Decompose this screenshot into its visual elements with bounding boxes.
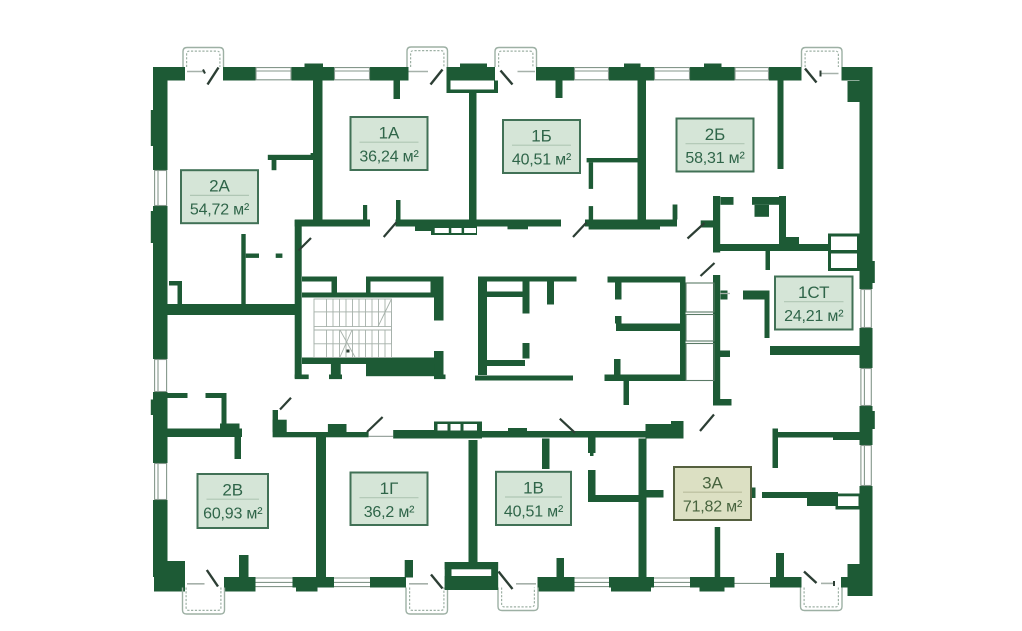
svg-text:24,21 м²: 24,21 м² [784,308,844,325]
wall: 2V pier at bottom wall [239,555,249,578]
wall: elevator dividers [332,282,436,293]
wall: 2B/1ST separator (H2) [713,244,830,251]
svg-text:1СТ: 1СТ [798,283,830,302]
line: 1ST hallway thin partition [720,293,730,295]
door: balcony top 4 [805,69,839,83]
wall: 2A hallway / core vertical [295,220,302,378]
svg-text:1А: 1А [379,124,400,143]
wall: elevator shaft right vertical [434,277,444,380]
wall: corridor top (H1) segments [295,220,677,227]
wall: bottom-left corner block [154,561,185,592]
label: apt 3A [674,467,751,520]
balcony: bottom 2 (apt 1G) [406,588,448,615]
wall: elevator block top bar left [302,277,337,282]
balcony: top 4 (apt 2B) [802,48,843,68]
wall: top-right corner block [848,81,873,102]
wall: pilaster on 2A/1A separator [311,153,315,160]
wall: tooth right of 1V/3A wall [647,490,664,498]
wall: corridor/1ST vertical (lower) [713,275,720,406]
window: bottom wall, apt 3A left [654,577,690,588]
wall: 2A door frame stubs [246,254,283,258]
window: bottom wall, apt 1V [575,577,610,588]
window: top wall, apt 2A [256,67,292,81]
shaft: duct row below H1 [431,227,477,236]
door: balcony bottom 1 [187,570,218,587]
wall: 1G/1V separator [469,440,478,562]
wall: 1V pier at bottom wall [557,558,565,578]
wall: 1V bathroom [588,436,639,502]
svg-text:60,93 м²: 60,93 м² [203,506,263,523]
wall: 2A bottom (H3) [168,304,297,315]
wall: 3A bedroom horizontal to right wall [778,432,860,440]
wall: 1A/1B separator [469,93,477,227]
wall: 3A lower partition [751,488,838,507]
wall: 3A bedroom vertical [773,429,779,469]
balcony: bottom 3 (apt 1V) [498,588,538,611]
svg-text:2Б: 2Б [705,125,726,144]
wall: 1G stub at bottom wall [405,560,413,578]
svg-text:1В: 1В [523,478,544,497]
svg-text:2В: 2В [222,481,243,500]
svg-text:2А: 2А [209,177,230,196]
wall: 1V/3A separator [639,439,647,578]
svg-text:58,31 м²: 58,31 м² [685,150,745,167]
balcony: bottom 4 (apt 3A) [801,588,843,611]
door: balcony bottom 4 [804,572,834,587]
wall: 3A stub at bottom wall [776,553,784,578]
wall: H1 lower teeth [415,227,660,232]
wall: 2B bathroom top [721,197,782,217]
door: 2B bathroom (swing) [688,223,705,239]
door: balcony top 3 [501,71,536,85]
label: apt 1G [351,473,428,526]
svg-text:36,2 м²: 36,2 м² [364,504,415,521]
wall: 1B/2B separator [638,81,647,221]
door: balcony bottom 3 [499,572,537,590]
label: apt 2A [181,170,258,223]
svg-text:40,51 м²: 40,51 м² [504,503,564,520]
wall: stair core bottom [302,358,443,365]
wall: bottom exterior [224,577,256,588]
wall: stub in 1B [556,81,563,99]
window: top wall, apt 2B left [654,67,690,81]
wall: 2A partition stub down [272,160,277,170]
window: bottom wall, apt 1G [334,577,370,588]
wall: 1B partition horizontal [587,158,639,162]
shaft: box between 1G and 1V at bottom wall [445,562,498,590]
wall: 1B partition vertical with door gap [589,162,593,219]
wall: bottom pier feet [224,588,256,592]
window: right wall, apt 3A lower [860,445,873,486]
wall: corridor bottom / apartments top (H7) [168,410,684,439]
label: apt 1B [503,120,580,173]
door: corridor to 1V (swing) [560,419,575,433]
wall: H1 door-frame stubs [363,200,677,220]
label: apt 2V [198,474,269,528]
window: right wall, apt 3A upper [860,368,873,406]
stairs: direction dot [347,350,350,353]
wall: right exterior [860,67,873,289]
wall: core lobby top bar right [478,277,577,282]
svg-text:3А: 3А [702,474,723,493]
wall: 1ST bottom [720,346,861,357]
window: top wall, apt 2B right [735,67,770,81]
wall: 1V hallway stub [542,439,550,470]
wall: 1ST partitions [721,291,770,339]
wall: stub below H2 [766,251,771,270]
door: balcony top 1 [187,68,219,85]
door: 2A room to hallway (swing) [299,238,312,251]
shaft: top duct box between 1A and 1B [447,81,499,94]
balcony: top 1 (apt 2A) [183,48,224,68]
wall: left pilaster bumps [151,110,153,146]
wall: thin stub below H7 [590,437,594,456]
wall: 2V bathroom [168,393,242,459]
svg-text:54,72 м²: 54,72 м² [190,202,250,219]
door: corridor to 3A (swing) [700,415,714,432]
wall: top exterior [154,67,185,81]
label: apt 1V [496,472,571,525]
window: bottom wall, apt 2V [256,577,293,588]
wall: corridor/1ST vertical (upper) [701,196,721,253]
wall: stub right of corridor wall end [715,399,732,406]
shaft: box at right wall near 3A [836,494,862,510]
wall: 2A/1A separator [313,81,323,221]
svg-text:1Б: 1Б [531,127,552,146]
wall: right pilaster bumps [873,261,875,283]
shaft: three thin boxes right of service block [686,283,714,381]
door: 1ST entrance (swing) [701,263,715,276]
door: corridor to 2V (swing) [280,398,291,410]
window: left wall, apt 2V lower [153,463,168,500]
stairs: staircase with treads [314,299,392,358]
label: apt 2B [677,119,754,172]
svg-text:71,82 м²: 71,82 м² [683,499,743,516]
wall: left exterior [153,67,168,170]
wall: 2B bathroom foot [781,237,799,245]
wall: core lobby verticals and bars [475,277,573,381]
label: apt 1A [351,117,428,170]
wall: 2A niche [169,281,182,304]
window: left wall, apt 2A [153,170,168,206]
wall: elevator block bottom bar [302,293,434,298]
svg-text:1Г: 1Г [380,479,399,498]
wall: elevator block top bar right [366,277,442,282]
shaft: duct row above H7 [434,422,482,435]
wall: 3A thin partition to bottom wall [715,527,721,578]
balcony: bottom 1 (apt 2V) [183,588,225,615]
window: bottom wall, apt 3A right [735,577,771,588]
wall: 2B bathroom right vertical [779,196,786,245]
wall: 2B closet thin wall [778,81,784,170]
wall: 2V/1G separator [316,433,326,578]
svg-text:40,51 м²: 40,51 м² [512,152,572,169]
wall: service shaft block [605,277,686,406]
window: top wall, apt 1A left [334,67,370,81]
wall: 2A partition horizontal [268,155,315,160]
wall: top pilaster bumps [305,64,324,68]
window: top wall, apt 1B left [574,67,609,81]
wall: bottom-right corner block [848,564,873,596]
door: corridor upper-right (swing) [573,223,587,238]
svg-text:36,24 м²: 36,24 м² [359,149,419,166]
wall: 2A thin vertical partition [241,234,245,306]
wall: core bottom piers and feet [295,364,446,380]
door: corridor to 1A hallway (swing) [384,222,397,237]
balcony: top 3 (apt 1B) [495,48,537,68]
wall: stub in 1A [394,81,401,100]
window: left wall, apt 2V upper [153,359,168,392]
shaft: double duct boxes at right wall [828,234,860,272]
window: right wall, apt 1ST [860,289,873,328]
door: balcony top 2 [409,70,443,85]
door: balcony bottom 2 [409,575,443,589]
balcony: top 2 (apt 1A) [407,47,448,67]
door: corridor to 1G (swing) [367,417,383,432]
label: apt 1ST [775,277,853,330]
